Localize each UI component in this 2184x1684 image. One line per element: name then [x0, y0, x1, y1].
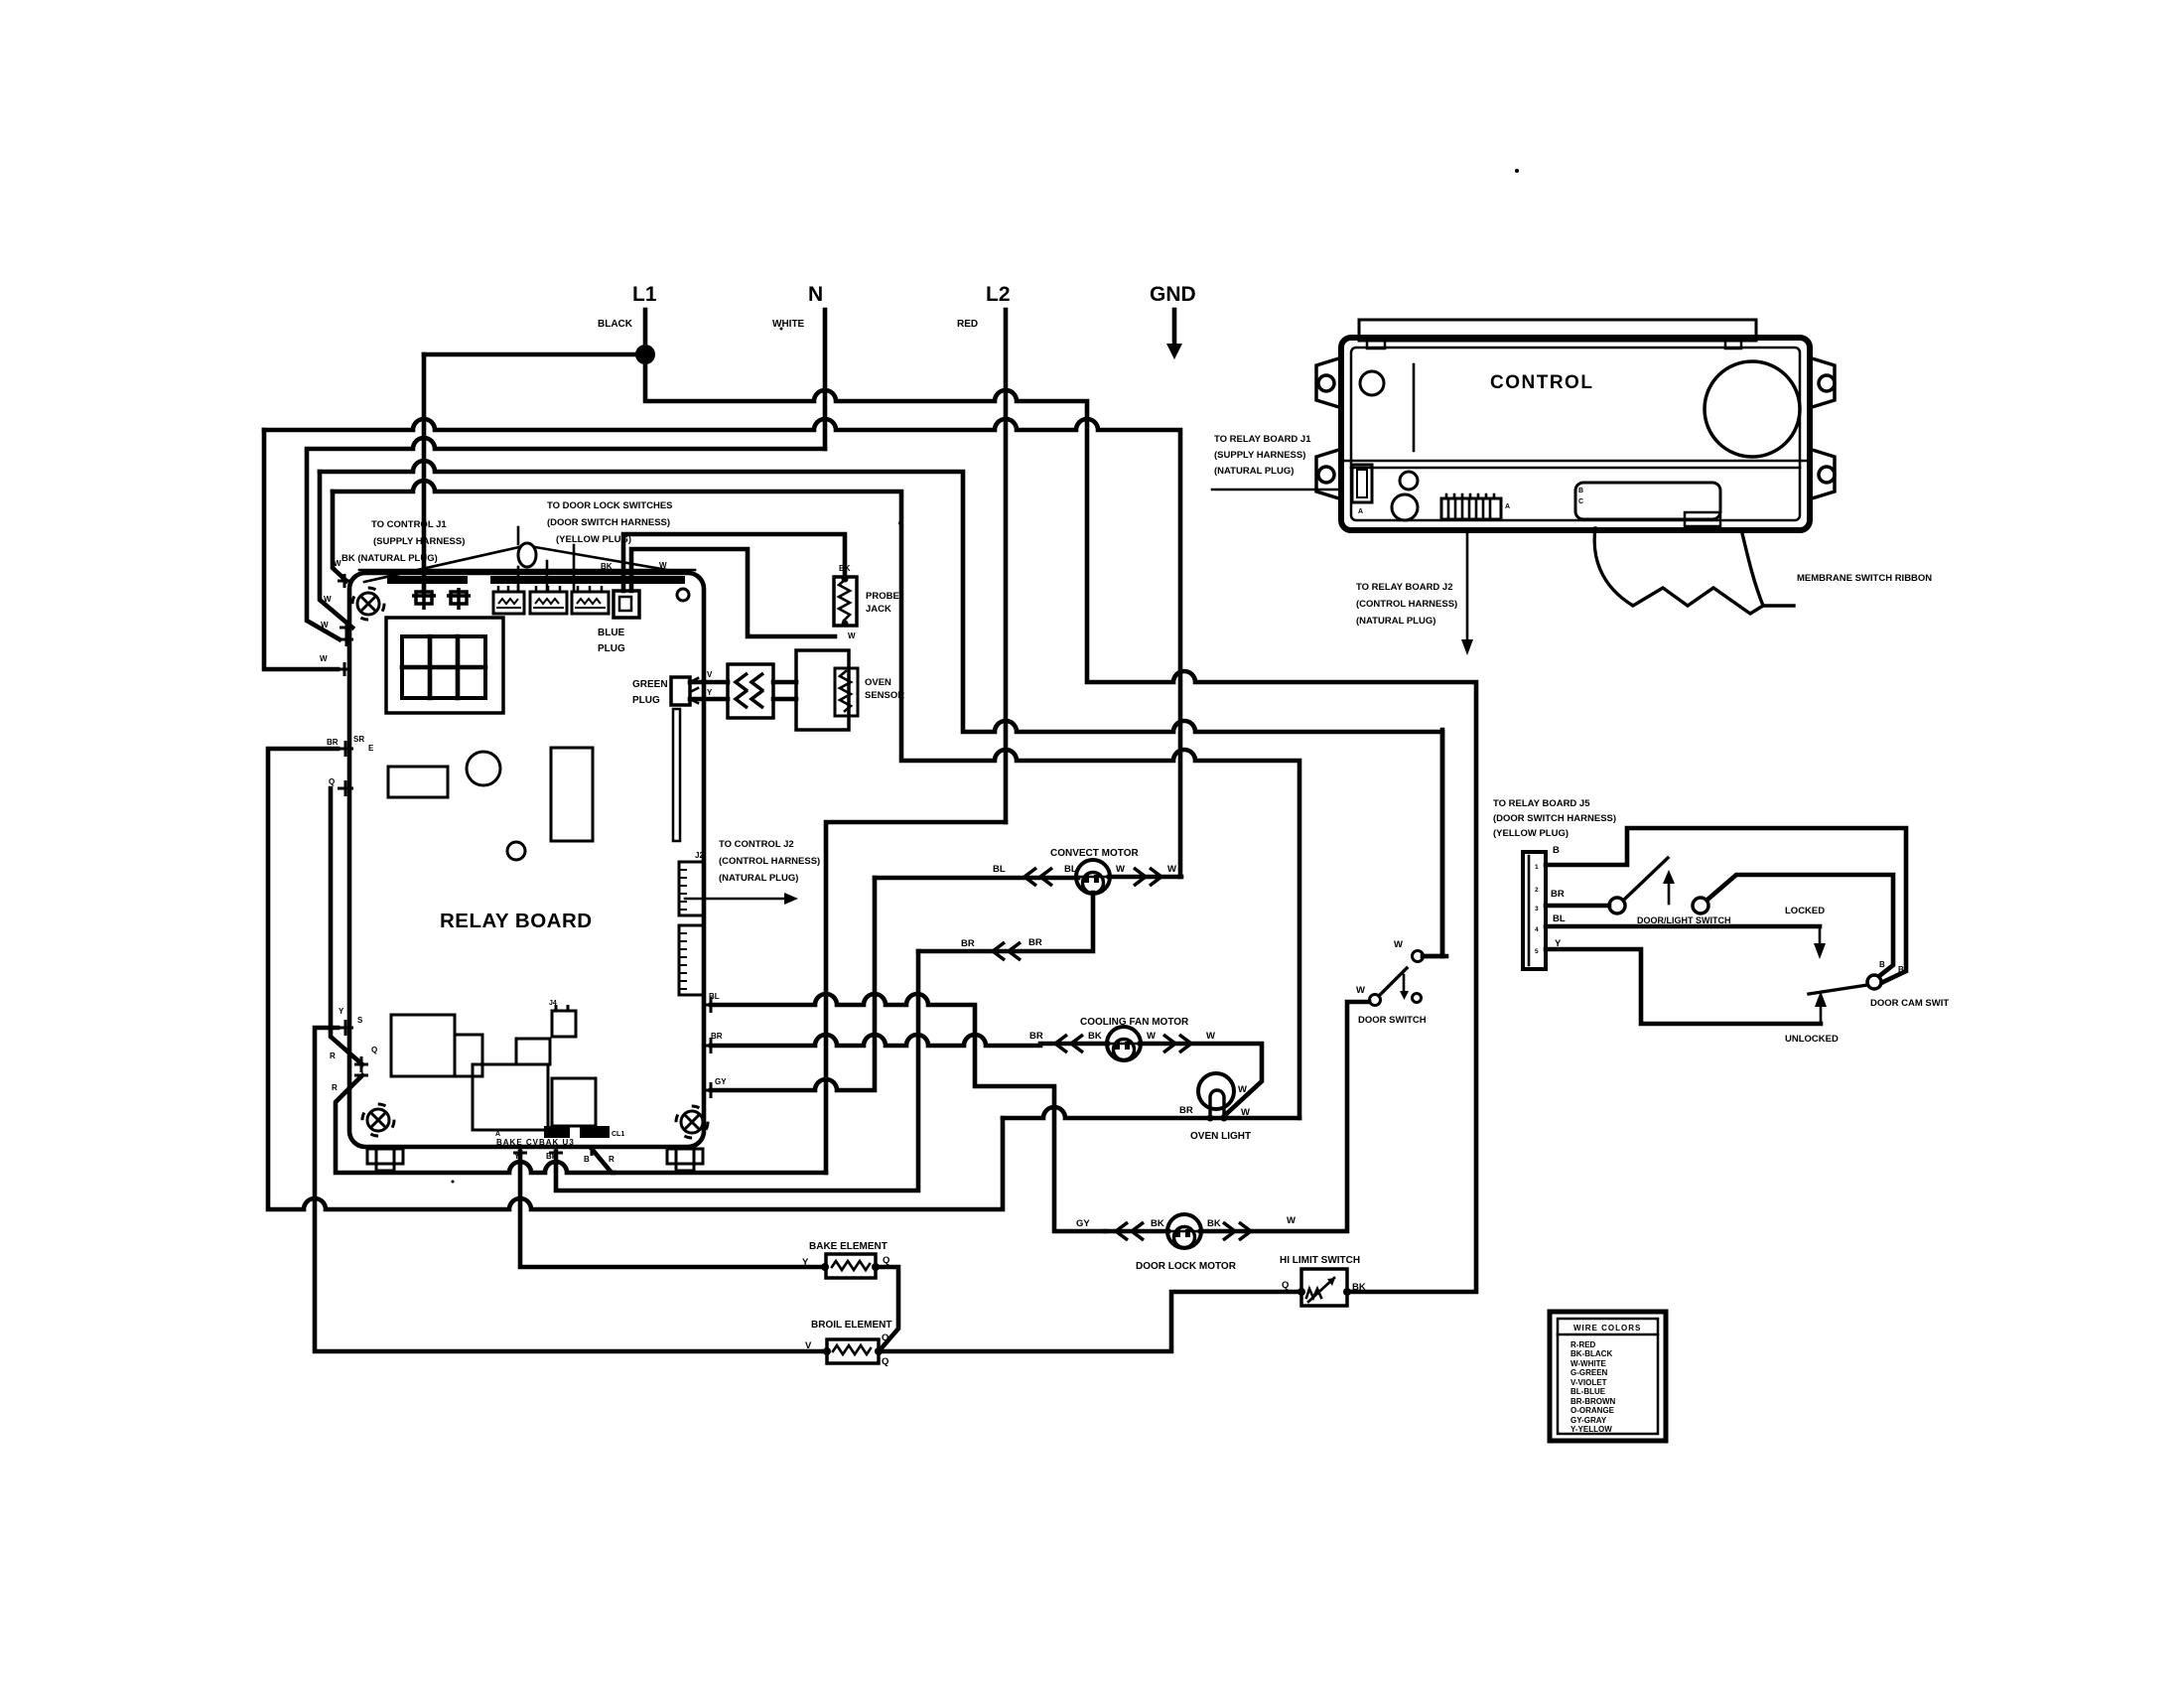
svg-text:CONTROL: CONTROL — [1490, 372, 1593, 393]
svg-text:S: S — [357, 1016, 363, 1025]
svg-text:TO DOOR LOCK SWITCHES: TO DOOR LOCK SWITCHES — [547, 500, 673, 511]
svg-text:RELAY BOARD: RELAY BOARD — [440, 910, 593, 932]
svg-text:V: V — [805, 1340, 812, 1351]
svg-text:BL: BL — [1553, 913, 1566, 924]
svg-text:B: B — [1879, 960, 1885, 969]
svg-text:GREEN: GREEN — [632, 679, 668, 690]
svg-text:R-RED: R-RED — [1570, 1340, 1596, 1349]
svg-text:BR: BR — [1551, 889, 1565, 900]
svg-text:BK (NATURAL PLUG): BK (NATURAL PLUG) — [341, 553, 438, 564]
svg-text:(SUPPLY HARNESS): (SUPPLY HARNESS) — [373, 536, 465, 547]
svg-text:(SUPPLY HARNESS): (SUPPLY HARNESS) — [1214, 450, 1305, 461]
svg-text:W: W — [1241, 1107, 1250, 1118]
svg-text:BR: BR — [327, 738, 339, 747]
svg-text:Q: Q — [371, 1046, 377, 1054]
svg-text:BR: BR — [961, 938, 975, 949]
svg-text:WHITE: WHITE — [772, 319, 805, 330]
svg-text:B: B — [584, 1155, 590, 1164]
svg-text:CONVECT MOTOR: CONVECT MOTOR — [1050, 848, 1139, 859]
svg-text:SENSOR: SENSOR — [865, 690, 904, 701]
svg-text:BROIL ELEMENT: BROIL ELEMENT — [811, 1320, 891, 1331]
svg-text:2: 2 — [1535, 887, 1539, 894]
svg-text:(DOOR SWITCH HARNESS): (DOOR SWITCH HARNESS) — [1493, 813, 1616, 824]
svg-text:MEMBRANE SWITCH RIBBON: MEMBRANE SWITCH RIBBON — [1797, 573, 1932, 584]
svg-text:Q: Q — [883, 1255, 889, 1266]
svg-text:BL-BLUE: BL-BLUE — [1570, 1387, 1606, 1396]
svg-text:PLUG: PLUG — [632, 695, 660, 706]
svg-text:PROBE: PROBE — [866, 591, 899, 602]
svg-text:BL: BL — [993, 864, 1006, 875]
svg-text:C: C — [1578, 498, 1583, 505]
svg-text:A: A — [1505, 503, 1510, 510]
svg-text:TO RELAY BOARD J1: TO RELAY BOARD J1 — [1214, 434, 1311, 445]
svg-text:W: W — [1356, 985, 1365, 996]
svg-text:TO RELAY BOARD J5: TO RELAY BOARD J5 — [1493, 798, 1590, 809]
svg-text:A: A — [1358, 508, 1363, 515]
svg-text:GY: GY — [1076, 1218, 1090, 1229]
svg-text:Y: Y — [339, 1007, 344, 1016]
svg-text:HI LIMIT SWITCH: HI LIMIT SWITCH — [1280, 1255, 1360, 1266]
svg-text:PLUG: PLUG — [598, 643, 625, 654]
svg-text:BR: BR — [1029, 1031, 1043, 1042]
svg-text:BL: BL — [1064, 864, 1077, 875]
svg-text:W: W — [1394, 939, 1403, 950]
svg-text:GND: GND — [1150, 283, 1196, 306]
svg-text:W: W — [334, 559, 341, 568]
svg-text:W: W — [1147, 1031, 1156, 1042]
svg-text:TO CONTROL J1: TO CONTROL J1 — [371, 519, 447, 530]
svg-text:O-ORANGE: O-ORANGE — [1570, 1406, 1615, 1415]
svg-text:BK: BK — [1207, 1218, 1221, 1229]
svg-text:Q: Q — [882, 1356, 888, 1367]
svg-text:TO CONTROL J2: TO CONTROL J2 — [719, 839, 794, 850]
svg-text:BAKE CVBAK U3: BAKE CVBAK U3 — [496, 1138, 575, 1147]
svg-text:(YELLOW PLUG): (YELLOW PLUG) — [1493, 828, 1569, 839]
svg-text:WIRE COLORS: WIRE COLORS — [1573, 1324, 1641, 1333]
svg-text:W: W — [1116, 864, 1125, 875]
svg-text:W: W — [1206, 1031, 1215, 1042]
svg-text:R: R — [332, 1083, 338, 1092]
svg-text:CL1: CL1 — [612, 1131, 624, 1138]
svg-text:RED: RED — [957, 319, 978, 330]
svg-text:DOOR SWITCH: DOOR SWITCH — [1358, 1015, 1427, 1026]
svg-text:DOOR/LIGHT SWITCH: DOOR/LIGHT SWITCH — [1637, 915, 1731, 925]
svg-text:BR-BROWN: BR-BROWN — [1570, 1397, 1616, 1406]
svg-text:TO RELAY BOARD J2: TO RELAY BOARD J2 — [1356, 582, 1453, 593]
svg-text:BK: BK — [839, 564, 851, 573]
svg-text:W: W — [320, 654, 328, 663]
svg-text:W: W — [321, 621, 329, 630]
svg-text:GY-GRAY: GY-GRAY — [1570, 1416, 1607, 1425]
svg-text:G-GREEN: G-GREEN — [1570, 1368, 1608, 1377]
svg-text:3: 3 — [1535, 906, 1539, 912]
svg-text:Y: Y — [514, 1152, 520, 1161]
svg-text:BR: BR — [1028, 937, 1042, 948]
svg-text:W: W — [1238, 1084, 1247, 1095]
svg-text:SR: SR — [353, 735, 364, 744]
svg-text:BK: BK — [1088, 1031, 1102, 1042]
svg-text:N: N — [808, 283, 823, 306]
svg-text:B: B — [1553, 845, 1560, 856]
svg-text:OVEN LIGHT: OVEN LIGHT — [1190, 1131, 1251, 1142]
svg-text:B: B — [1578, 488, 1583, 494]
svg-text:W: W — [1287, 1215, 1296, 1226]
svg-text:UNLOCKED: UNLOCKED — [1785, 1034, 1839, 1045]
svg-text:W: W — [659, 561, 667, 570]
svg-text:(CONTROL HARNESS): (CONTROL HARNESS) — [1356, 599, 1457, 610]
svg-text:BAKE ELEMENT: BAKE ELEMENT — [809, 1241, 887, 1252]
svg-text:BK: BK — [601, 562, 613, 571]
svg-text:BK: BK — [1151, 1218, 1164, 1229]
svg-text:BR: BR — [1179, 1105, 1193, 1116]
svg-text:Y: Y — [707, 688, 713, 697]
svg-text:Y: Y — [802, 1257, 809, 1268]
svg-text:(NATURAL PLUG): (NATURAL PLUG) — [1214, 466, 1294, 477]
svg-text:BR: BR — [711, 1032, 723, 1041]
svg-text:5: 5 — [1535, 948, 1539, 955]
svg-text:BLUE: BLUE — [598, 628, 625, 638]
svg-text:JACK: JACK — [866, 604, 891, 615]
svg-text:GY: GY — [715, 1077, 727, 1086]
svg-text:V: V — [707, 670, 713, 679]
svg-text:W: W — [848, 631, 856, 640]
svg-text:4: 4 — [1535, 926, 1539, 933]
svg-text:W: W — [324, 595, 332, 604]
svg-text:BK: BK — [1352, 1282, 1366, 1293]
svg-text:R: R — [330, 1052, 336, 1060]
svg-text:(NATURAL PLUG): (NATURAL PLUG) — [1356, 616, 1435, 627]
svg-text:LOCKED: LOCKED — [1785, 906, 1825, 916]
svg-text:BR: BR — [546, 1152, 558, 1161]
svg-text:A: A — [495, 1131, 500, 1138]
svg-text:E: E — [368, 744, 374, 753]
svg-text:Y-YELLOW: Y-YELLOW — [1570, 1425, 1612, 1434]
svg-text:Q: Q — [329, 777, 335, 786]
svg-text:R: R — [609, 1155, 614, 1164]
svg-text:L1: L1 — [632, 283, 657, 306]
svg-text:Q: Q — [882, 1333, 888, 1343]
svg-text:J2: J2 — [695, 851, 704, 860]
svg-text:L2: L2 — [986, 283, 1011, 306]
svg-text:COOLING FAN MOTOR: COOLING FAN MOTOR — [1080, 1017, 1189, 1028]
svg-text:BK-BLACK: BK-BLACK — [1570, 1349, 1612, 1358]
svg-text:V-VIOLET: V-VIOLET — [1570, 1378, 1607, 1387]
svg-text:DOOR CAM SWIT: DOOR CAM SWIT — [1870, 998, 1949, 1009]
svg-text:B: B — [1898, 965, 1904, 974]
svg-text:OVEN: OVEN — [865, 677, 891, 688]
svg-text:(YELLOW PLUG): (YELLOW PLUG) — [556, 534, 631, 545]
svg-text:(DOOR SWITCH HARNESS): (DOOR SWITCH HARNESS) — [547, 517, 670, 528]
svg-text:(CONTROL HARNESS): (CONTROL HARNESS) — [719, 856, 820, 867]
svg-text:W-WHITE: W-WHITE — [1570, 1359, 1606, 1368]
svg-text:BLACK: BLACK — [598, 319, 633, 330]
svg-text:Q: Q — [1282, 1280, 1289, 1291]
svg-text:(NATURAL PLUG): (NATURAL PLUG) — [719, 873, 798, 884]
svg-text:1: 1 — [1535, 864, 1539, 871]
svg-text:J4: J4 — [549, 1000, 557, 1007]
svg-text:DOOR LOCK MOTOR: DOOR LOCK MOTOR — [1136, 1261, 1237, 1272]
svg-text:W: W — [1167, 864, 1176, 875]
